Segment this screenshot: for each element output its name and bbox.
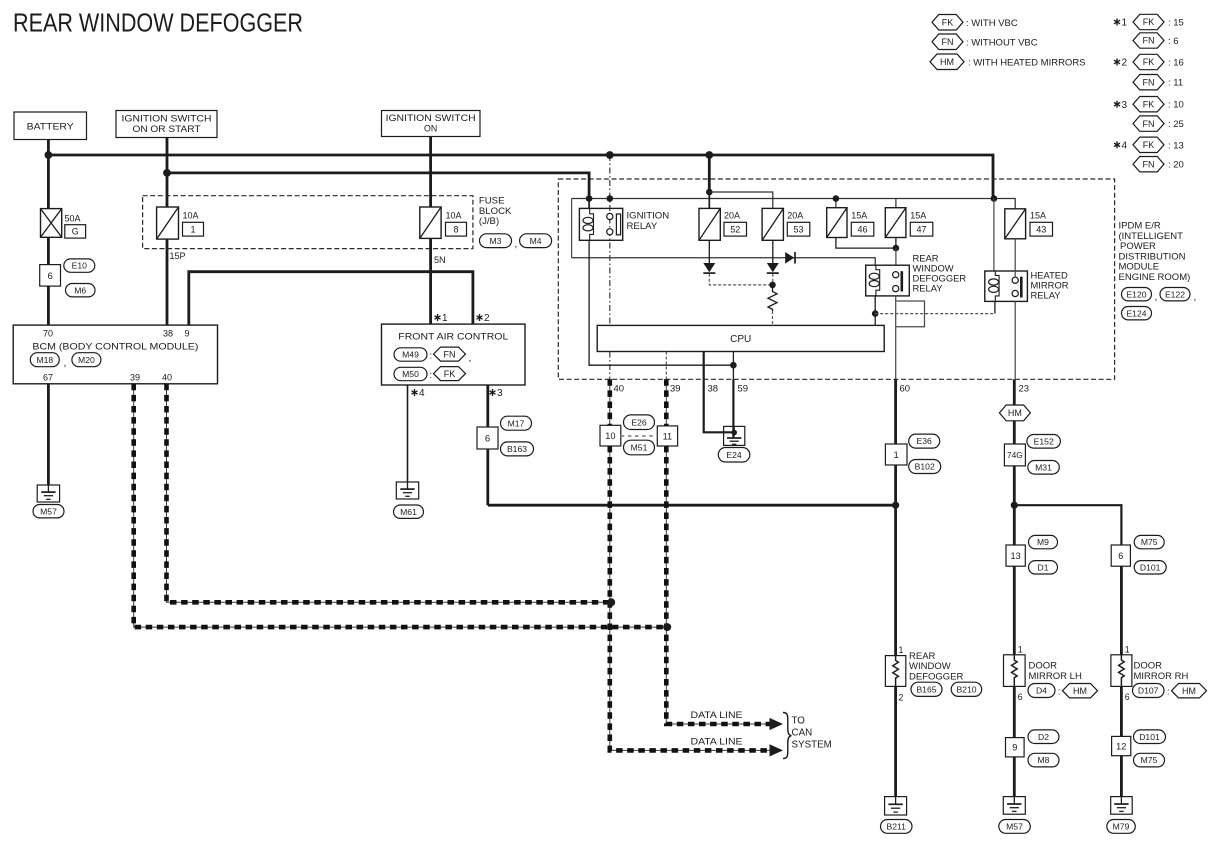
svg-text:FN: FN xyxy=(942,37,954,47)
svg-text:47: 47 xyxy=(916,224,926,234)
brace to CAN xyxy=(783,713,792,759)
svg-text:70: 70 xyxy=(43,329,53,339)
svg-text:SYSTEM: SYSTEM xyxy=(792,740,832,751)
legend FN without VBC xyxy=(932,34,1038,50)
wire front air control *3 output xyxy=(488,385,896,505)
svg-text:E26: E26 xyxy=(631,417,647,427)
svg-text:IGNITION: IGNITION xyxy=(627,211,670,222)
svg-text:3: 3 xyxy=(497,388,503,399)
legend note FN 20 xyxy=(1133,157,1184,172)
CPU box xyxy=(597,325,884,351)
legend note FN 11 xyxy=(1133,75,1183,90)
svg-text:,: , xyxy=(515,239,518,250)
data line label lower xyxy=(691,736,743,746)
svg-text:FK: FK xyxy=(1143,140,1155,150)
connector ref M51 xyxy=(624,440,655,455)
svg-text:DOOR: DOOR xyxy=(1134,661,1163,672)
node fuse46 tap xyxy=(833,195,840,202)
node ignition relay contact junction xyxy=(607,195,614,202)
svg-text:6: 6 xyxy=(1125,692,1130,702)
svg-text:39: 39 xyxy=(130,373,140,383)
ground B211 xyxy=(881,797,913,834)
label *1 xyxy=(435,313,449,324)
wire line RH to mirror xyxy=(1120,566,1123,655)
wire BCM pin39 data line xyxy=(134,384,668,627)
svg-text:M51: M51 xyxy=(631,443,648,453)
connector link 10-11 xyxy=(621,435,658,437)
diode D2 xyxy=(767,263,779,273)
wire defogger relay output 60 xyxy=(896,296,925,379)
connector ref M20 xyxy=(72,353,101,367)
svg-text:2: 2 xyxy=(1122,58,1128,69)
svg-text::: : xyxy=(1167,687,1170,698)
wire ignition on-or-start feed xyxy=(166,138,169,326)
legend note *4 FK 13 xyxy=(1114,137,1184,152)
svg-text:53: 53 xyxy=(793,224,803,234)
wire fuse52 output xyxy=(708,240,710,263)
connector ref M17 xyxy=(501,416,532,430)
connector ref M31 xyxy=(1028,461,1060,475)
connector ref M6 xyxy=(66,284,96,297)
connector ref B165 xyxy=(911,682,942,696)
svg-text:M79: M79 xyxy=(1113,822,1130,832)
wire fuse46 feed xyxy=(835,199,837,208)
connector ref B102 xyxy=(909,460,941,474)
IPDM pin 39 xyxy=(670,384,681,395)
svg-text:: WITH VBC: : WITH VBC xyxy=(966,18,1018,29)
svg-text:: 25: : 25 xyxy=(1168,119,1184,130)
wire CPU pin39 stub xyxy=(665,352,667,380)
wire fuse47 output xyxy=(895,238,897,249)
rear window defogger relay xyxy=(866,265,910,296)
IPDM internal bus xyxy=(572,199,994,258)
connector ref M75 xyxy=(1134,535,1164,548)
svg-text:REAR: REAR xyxy=(909,651,936,662)
connector ref B210 xyxy=(951,682,982,696)
wire line 23 mid xyxy=(1013,421,1016,545)
node defogger coil drive xyxy=(872,310,879,317)
door mirror RH label xyxy=(1134,661,1189,682)
svg-text:HM: HM xyxy=(1182,686,1196,696)
svg-text:M9: M9 xyxy=(1037,537,1049,547)
fuse 15A 43 xyxy=(1005,209,1053,239)
svg-text:TO: TO xyxy=(792,716,806,727)
IPDM pin 38 xyxy=(708,384,719,395)
svg-text:B210: B210 xyxy=(956,684,976,694)
svg-text:38: 38 xyxy=(708,384,719,395)
svg-text:BATTERY: BATTERY xyxy=(27,122,75,133)
wire line 60 xyxy=(894,379,897,655)
fuse 15A 47 xyxy=(885,208,933,238)
svg-text:D2: D2 xyxy=(1038,732,1049,742)
door mirror LH element xyxy=(1004,655,1026,687)
node line23 branch xyxy=(1011,502,1018,509)
wire CPU pin40 stub xyxy=(609,352,611,380)
defogger pin 2 xyxy=(899,693,904,703)
svg-text:10: 10 xyxy=(605,431,615,441)
node fuse43 tap xyxy=(991,195,998,202)
fuse 10A 8 xyxy=(420,207,467,238)
wire pin38 to E24 xyxy=(704,379,734,432)
svg-text:E152: E152 xyxy=(1034,436,1054,446)
connector 6 M17/B163 xyxy=(477,427,498,449)
connector ref M9 xyxy=(1029,535,1058,548)
IPDM E/R label xyxy=(1119,221,1191,284)
svg-text:HM: HM xyxy=(940,57,954,67)
node bus tap fuses xyxy=(705,151,713,159)
svg-text:1: 1 xyxy=(1125,644,1130,654)
diode D1 xyxy=(703,263,715,273)
mirror RH pin 6 xyxy=(1125,692,1130,702)
battery box xyxy=(14,112,87,140)
svg-text:40: 40 xyxy=(162,373,172,383)
wire ignition bus 2 xyxy=(167,173,589,199)
fuse 20A 53 xyxy=(762,208,810,240)
connector 6 E10/M6 xyxy=(40,265,61,287)
wire defogger to ground xyxy=(894,686,897,796)
svg-text:RELAY: RELAY xyxy=(1031,290,1062,301)
wire heated relay coil return xyxy=(994,301,996,313)
svg-text:: 15: : 15 xyxy=(1168,18,1184,29)
wire mirror RH lower xyxy=(1120,686,1123,736)
connector ref D107 HM xyxy=(1133,684,1207,698)
svg-text:M17: M17 xyxy=(508,418,525,428)
svg-text:12: 12 xyxy=(1116,741,1126,751)
connector ref E26 xyxy=(624,415,655,430)
fuse 15A 46 xyxy=(827,208,874,238)
svg-text:: 16: : 16 xyxy=(1168,58,1184,69)
svg-text:5N: 5N xyxy=(434,255,446,265)
ground M57 right xyxy=(999,797,1031,834)
connector ref M75 lower xyxy=(1134,753,1165,767)
node pin59 join xyxy=(730,362,737,369)
svg-text:HM: HM xyxy=(1008,408,1022,418)
ignition relay label xyxy=(627,211,670,233)
BCM box xyxy=(13,325,217,384)
svg-text:FK: FK xyxy=(1143,99,1155,109)
svg-text:,: , xyxy=(469,353,472,364)
IPDM pin 60 xyxy=(900,384,911,395)
wire BCM pin9 to front air control xyxy=(189,272,473,325)
svg-text:74G: 74G xyxy=(1007,450,1023,460)
svg-text:: 10: : 10 xyxy=(1168,100,1184,111)
svg-text:D101: D101 xyxy=(1140,562,1161,572)
connector 1 E36/B102 xyxy=(885,444,907,465)
door mirror RH element xyxy=(1111,655,1132,687)
svg-text:DATA LINE: DATA LINE xyxy=(691,710,743,720)
wire ignition relay coil feed xyxy=(588,173,590,209)
node data39 junction xyxy=(663,623,671,631)
svg-text:20A: 20A xyxy=(724,211,740,221)
svg-text:M50: M50 xyxy=(402,369,419,379)
wire pin59 to E24 xyxy=(732,379,734,438)
IPDM pin 59 xyxy=(738,384,749,395)
svg-text:: 20: : 20 xyxy=(1168,160,1184,171)
svg-text::: : xyxy=(1058,687,1061,698)
node ignition relay coil junction xyxy=(586,195,593,202)
svg-text:FN: FN xyxy=(1143,119,1155,129)
title xyxy=(13,10,303,38)
svg-text:CAN: CAN xyxy=(792,728,813,739)
legend note *3 FK 10 xyxy=(1114,97,1184,112)
wire ignition relay coil return xyxy=(589,240,733,365)
svg-text:D1: D1 xyxy=(1038,562,1049,572)
wire line 23 upper xyxy=(1013,379,1016,405)
IPDM E/R dashed box xyxy=(558,179,1114,379)
node battery bus junction xyxy=(45,151,53,159)
svg-text:D4: D4 xyxy=(1036,686,1047,696)
wire battery feed xyxy=(47,140,50,326)
door mirror LH label xyxy=(1029,661,1082,682)
connector ref E24 xyxy=(718,448,750,463)
svg-text:MIRROR LH: MIRROR LH xyxy=(1029,671,1082,682)
label *2 xyxy=(477,313,491,324)
svg-text:DATA LINE: DATA LINE xyxy=(691,736,743,746)
connector ref D1 xyxy=(1029,561,1058,574)
svg-text:1: 1 xyxy=(1018,644,1023,654)
mirror LH pin 6 xyxy=(1018,692,1023,702)
svg-text:D107: D107 xyxy=(1138,686,1159,696)
ignition switch on box xyxy=(382,111,481,137)
svg-text:FK: FK xyxy=(942,18,954,28)
svg-text:ENGINE ROOM): ENGINE ROOM) xyxy=(1119,272,1191,283)
svg-text:50A: 50A xyxy=(65,214,81,224)
svg-text:1: 1 xyxy=(190,224,195,234)
svg-text:40: 40 xyxy=(614,384,625,395)
svg-text:1: 1 xyxy=(894,450,899,461)
svg-text:FN: FN xyxy=(1143,77,1155,87)
svg-text:67: 67 xyxy=(43,373,53,383)
connector ref M3 xyxy=(480,234,518,250)
wire heated mirror relay coil feed xyxy=(993,199,995,272)
wire heated relay output 23 xyxy=(1014,301,1016,379)
label TO CAN SYSTEM xyxy=(792,716,832,751)
mirror LH pin 1 xyxy=(1018,644,1023,654)
svg-text:FN: FN xyxy=(1143,36,1155,46)
connector 10 xyxy=(600,425,621,446)
svg-text:CPU: CPU xyxy=(730,334,751,345)
label *4 xyxy=(412,388,426,399)
svg-text:FK: FK xyxy=(1143,17,1155,27)
BCM pin 67 xyxy=(43,373,53,383)
connector ref D4 HM xyxy=(1028,684,1098,698)
svg-text:E124: E124 xyxy=(1126,308,1146,318)
svg-text:REAR WINDOW DEFOGGER: REAR WINDOW DEFOGGER xyxy=(13,10,303,38)
heated mirror relay xyxy=(985,271,1028,301)
svg-text:RELAY: RELAY xyxy=(913,283,944,294)
svg-text:1: 1 xyxy=(1122,18,1128,29)
fusible link 50A G xyxy=(41,209,86,238)
svg-text:(J/B): (J/B) xyxy=(479,216,499,227)
wire fuse43 feed xyxy=(994,199,1015,209)
wire branch to RH mirror xyxy=(1014,505,1121,545)
arrow to CAN lower xyxy=(770,744,784,756)
wire coil drive link (dashed) xyxy=(875,313,995,315)
connector 12 D101/M75 xyxy=(1112,736,1131,755)
connector 9 D2/M8 xyxy=(1006,738,1025,757)
svg-text:: WITHOUT VBC: : WITHOUT VBC xyxy=(966,38,1038,49)
svg-text:9: 9 xyxy=(184,329,189,339)
svg-text:6: 6 xyxy=(485,433,490,444)
svg-text:M49: M49 xyxy=(402,350,419,360)
svg-text:WINDOW: WINDOW xyxy=(909,661,951,672)
wire fuse43 to heated relay contact xyxy=(1014,239,1016,278)
svg-text:60: 60 xyxy=(900,384,911,395)
rear window defogger label xyxy=(909,651,964,683)
connector ref E122 xyxy=(1160,288,1196,304)
svg-text:M57: M57 xyxy=(1006,822,1023,832)
svg-text:6: 6 xyxy=(1118,551,1123,561)
svg-text::: : xyxy=(430,351,433,362)
connector ref D101 xyxy=(1134,561,1166,574)
svg-text:15A: 15A xyxy=(910,211,926,221)
svg-text:: WITH HEATED MIRRORS: : WITH HEATED MIRRORS xyxy=(968,58,1086,69)
node diode join xyxy=(769,282,776,289)
connector 6 M75/D101 xyxy=(1111,545,1130,566)
connector 11 xyxy=(657,426,677,446)
svg-text:M8: M8 xyxy=(1038,755,1050,765)
connector ref D101 lower xyxy=(1134,730,1166,744)
svg-text:M31: M31 xyxy=(1035,462,1052,472)
svg-text:11: 11 xyxy=(663,431,673,441)
diode D3 on relay coil feed xyxy=(785,252,795,264)
svg-text:M57: M57 xyxy=(40,506,57,516)
node fuse46/47 join xyxy=(893,245,900,252)
node fuse52 tap xyxy=(706,189,713,196)
BCM label xyxy=(32,342,198,353)
svg-text:MIRROR RH: MIRROR RH xyxy=(1134,671,1189,682)
svg-text:DEFOGGER: DEFOGGER xyxy=(909,672,964,683)
legend note FN 25 xyxy=(1133,116,1184,131)
legend HM with heated mirrors xyxy=(930,54,1086,70)
svg-text:M20: M20 xyxy=(78,355,95,365)
legend FK with VBC xyxy=(932,15,1018,31)
node ignition bus junction xyxy=(163,169,171,177)
wire mirror LH lower xyxy=(1013,686,1016,737)
BCM pin 9 xyxy=(184,329,189,339)
connector ref E124 xyxy=(1122,307,1152,320)
svg-text:9: 9 xyxy=(1012,743,1017,753)
svg-text:ON OR START: ON OR START xyxy=(133,124,202,134)
svg-text:M75: M75 xyxy=(1141,537,1158,547)
svg-text:39: 39 xyxy=(670,384,681,395)
wire BCM pin67 to ground xyxy=(47,384,50,485)
wire diode D2 to node xyxy=(772,274,774,285)
node data40 junction xyxy=(607,598,615,606)
connector ref D2 xyxy=(1028,730,1059,744)
label 15P xyxy=(170,251,186,261)
svg-text:15A: 15A xyxy=(851,211,867,221)
connector ref B163 xyxy=(501,442,534,456)
svg-text:FRONT AIR CONTROL: FRONT AIR CONTROL xyxy=(398,332,508,343)
svg-text:: 6: : 6 xyxy=(1168,36,1179,47)
IPDM pin 23 xyxy=(1019,384,1030,395)
svg-text:M75: M75 xyxy=(1141,755,1158,765)
svg-text:FN: FN xyxy=(1143,159,1155,169)
arrow to CAN upper xyxy=(770,718,784,730)
svg-text:1: 1 xyxy=(442,313,448,324)
wire fuse47 feed xyxy=(895,199,897,208)
connector ref E120 xyxy=(1122,288,1158,304)
svg-text:15A: 15A xyxy=(1030,211,1046,221)
ground M61 xyxy=(394,482,424,518)
heated mirror relay label xyxy=(1031,270,1069,301)
svg-text:M4: M4 xyxy=(530,236,542,246)
svg-text:59: 59 xyxy=(738,384,749,395)
svg-text:IGNITION SWITCH: IGNITION SWITCH xyxy=(122,114,212,124)
front air control box xyxy=(382,324,526,385)
hexagon HM on line 23 xyxy=(999,405,1030,421)
svg-text:38: 38 xyxy=(163,329,173,339)
wire fuse53 output xyxy=(772,240,774,263)
svg-text:G: G xyxy=(72,227,79,237)
fuse 20A 52 xyxy=(699,208,747,240)
svg-text:RELAY: RELAY xyxy=(627,221,658,232)
wire front air control to ground M61 xyxy=(407,385,409,482)
svg-text:10A: 10A xyxy=(183,211,199,221)
svg-text:D101: D101 xyxy=(1139,732,1160,742)
svg-text:E36: E36 xyxy=(917,436,933,446)
BCM pin 39 xyxy=(130,373,140,383)
connector ref M50 FK xyxy=(394,367,466,381)
wire line 23 to LH mirror xyxy=(1013,566,1016,655)
svg-text:DOOR: DOOR xyxy=(1029,661,1058,672)
svg-text:: 13: : 13 xyxy=(1168,140,1184,151)
wire bus to ignition relay contact (dash-dot) xyxy=(609,155,611,325)
svg-text:E122: E122 xyxy=(1165,289,1185,299)
svg-text:13: 13 xyxy=(1010,551,1020,561)
svg-text:,: , xyxy=(64,358,67,369)
rear window defogger element xyxy=(885,656,905,687)
rear window defogger relay label xyxy=(913,253,967,294)
svg-text:2: 2 xyxy=(899,693,904,703)
wire defogger relay coil to CPU xyxy=(874,296,876,326)
svg-text:FK: FK xyxy=(444,369,456,379)
legend note *2 FK 16 xyxy=(1114,54,1184,69)
svg-text:6: 6 xyxy=(1018,692,1023,702)
wire mirror LH to ground xyxy=(1013,757,1016,797)
wire to defogger relay contact xyxy=(895,248,897,265)
svg-text:FK: FK xyxy=(1143,57,1155,67)
label 5N xyxy=(434,255,446,265)
svg-text:10A: 10A xyxy=(446,211,462,221)
svg-text:M18: M18 xyxy=(36,355,53,365)
defogger pin 1 xyxy=(899,645,904,655)
svg-text:E24: E24 xyxy=(726,450,742,460)
svg-text:HM: HM xyxy=(1073,686,1087,696)
svg-text:B102: B102 xyxy=(915,462,935,472)
IPDM pin 40 xyxy=(614,384,625,395)
wire fuse53 feed xyxy=(709,192,773,208)
wire CPU pin59 stub xyxy=(732,352,734,380)
connector ref M4 xyxy=(520,234,552,248)
svg-text:M61: M61 xyxy=(400,507,417,517)
mirror RH pin 1 xyxy=(1125,644,1130,654)
svg-text:3: 3 xyxy=(1122,100,1128,111)
svg-text:4: 4 xyxy=(419,388,425,399)
ground E24 xyxy=(724,426,745,445)
BCM pin 70 xyxy=(43,329,53,339)
connector ref M18 xyxy=(30,353,66,369)
BCM pin 40 xyxy=(162,373,172,383)
resistor R1 xyxy=(768,285,777,326)
connector ref M49 FN xyxy=(394,347,471,364)
svg-text::: : xyxy=(430,370,433,381)
svg-text:BCM (BODY CONTROL MODULE): BCM (BODY CONTROL MODULE) xyxy=(32,342,198,353)
fuse block label xyxy=(479,196,512,228)
IPDM internal feed line xyxy=(572,258,876,265)
wire fuse46 output xyxy=(836,238,896,249)
